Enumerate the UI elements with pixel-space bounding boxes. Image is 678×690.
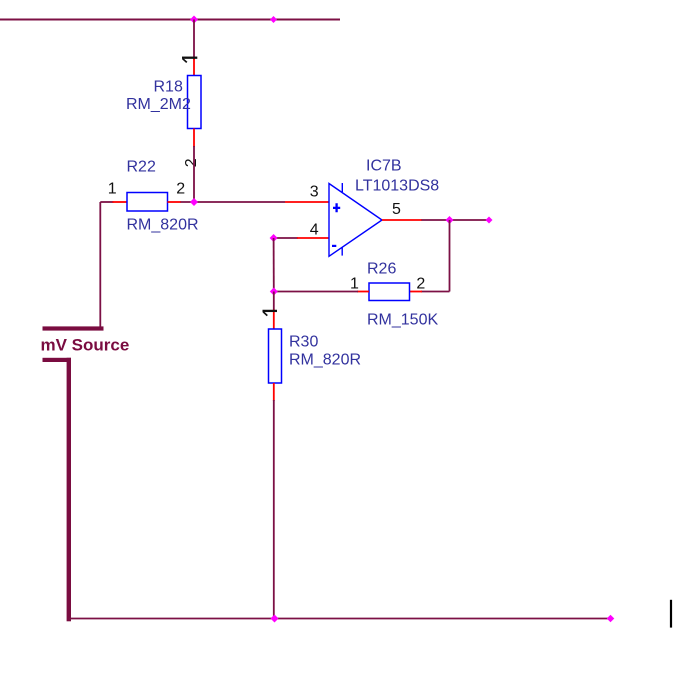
svg-text:RM_150K: RM_150K [367,312,438,329]
resistor R26 pin 1 stub [357,291,369,293]
resistor R18 pin 1 number [182,57,197,59]
resistor R30 pin 2 stub [273,383,275,401]
terminal mV Source upper bar [43,326,104,330]
op-amp IC7B minus symbol [332,245,336,247]
junction node bottom R30 [271,615,279,623]
node bottom end dot [607,615,615,623]
op-amp IC7B plus symbol [333,203,340,212]
svg-text:R30: R30 [289,334,318,351]
wire from top net down to R18 [193,20,195,61]
resistor R22 pin 1 stub [113,201,128,203]
svg-text:R22: R22 [127,159,156,176]
svg-text:5: 5 [392,201,401,218]
terminal mV Source lower bar [43,358,72,362]
wire node to op-amp inverting input [274,237,298,239]
svg-text:RM_820R: RM_820R [289,352,361,369]
svg-text:1: 1 [108,181,117,198]
wire from R18 down to node [193,146,195,202]
svg-text:R18: R18 [154,79,183,96]
op-amp IC7B pin 5 output stub [382,219,422,221]
resistor R30 pin 1 number [263,310,278,312]
junction node at top of R18 [190,16,198,24]
op-amp IC7B pin 4 stub [297,237,329,239]
junction node inverting input [270,234,278,242]
wire mV source to R22 [100,201,113,203]
svg-text:2: 2 [183,158,200,167]
resistor R18 pin 2 stub [193,129,195,148]
resistor R18 pin 1 stub [193,59,195,76]
node output end dot [486,217,493,224]
svg-text:2: 2 [416,276,425,293]
wire R26 to inverting node [274,291,358,293]
junction node top second [270,16,277,23]
terminal mV Source vertical lead [67,358,71,622]
op-amp IC7B pin 3 stub [285,201,329,203]
wire inverting node vertical [273,238,275,292]
wire bottom net [69,618,611,620]
resistor R18 body [188,76,202,129]
resistor R30 body [269,329,282,383]
wire top net [0,19,340,21]
resistor R26 body [369,283,410,301]
svg-text:3: 3 [310,183,319,200]
resistor R22 pin 2 stub [168,201,182,203]
wire R22 down to mV source [99,202,101,327]
wire feedback vertical [449,220,451,292]
cursor mark [670,600,672,628]
junction node output [446,216,454,224]
svg-text:R26: R26 [367,261,396,278]
svg-text:1: 1 [350,276,359,293]
wire output net [422,219,490,221]
wire feedback horizontal to R26 [421,291,450,293]
wire R22 to op-amp non-inverting input [181,201,286,203]
resistor R26 pin 2 stub [410,291,423,293]
op-amp IC7B V+ power tick [341,183,343,192]
junction node R30 top [270,288,278,296]
svg-text:LT1013DS8: LT1013DS8 [355,178,439,195]
op-amp IC7B V- power tick [341,247,343,255]
svg-text:RM_820R: RM_820R [127,217,199,234]
svg-text:4: 4 [310,221,319,238]
svg-text:2: 2 [176,181,185,198]
svg-text:mV Source: mV Source [41,336,130,355]
wire node down to R30 [273,292,275,311]
resistor R22 body [127,193,168,212]
resistor R30 pin 1 stub [273,310,275,330]
op-amp IC7B triangle body [329,184,382,257]
wire R30 down to bottom net [273,400,275,619]
svg-text:IC7B: IC7B [366,158,402,175]
junction node R22/R18 [190,198,198,206]
svg-text:RM_2M2: RM_2M2 [126,96,191,113]
